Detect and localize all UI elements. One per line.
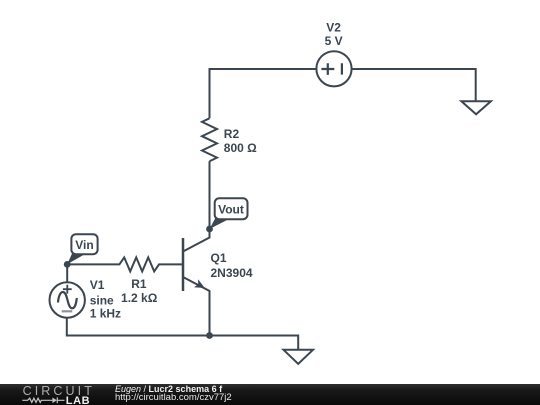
svg-text:1.2 kΩ: 1.2 kΩ bbox=[121, 291, 158, 305]
svg-text:800 Ω: 800 Ω bbox=[224, 141, 257, 155]
svg-text:V2: V2 bbox=[326, 21, 341, 35]
svg-text:V1: V1 bbox=[90, 278, 105, 292]
svg-text:R1: R1 bbox=[131, 277, 147, 291]
svg-text:Vout: Vout bbox=[218, 203, 244, 217]
svg-text:R2: R2 bbox=[224, 127, 240, 141]
svg-text:Vin: Vin bbox=[75, 238, 93, 252]
svg-text:LAB: LAB bbox=[66, 395, 90, 405]
svg-text:sine: sine bbox=[90, 293, 114, 307]
svg-text:5 V: 5 V bbox=[325, 34, 343, 48]
svg-text:2N3904: 2N3904 bbox=[211, 266, 253, 280]
svg-text:Q1: Q1 bbox=[211, 251, 227, 265]
svg-text:1 kHz: 1 kHz bbox=[90, 307, 121, 321]
